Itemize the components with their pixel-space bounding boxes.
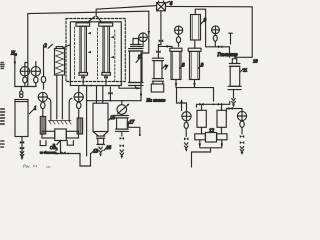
wire riser down from line A bbox=[141, 11, 149, 101]
analysis branch bbox=[119, 87, 141, 89]
R2 foot bbox=[102, 73, 111, 76]
column 8/9 outlet stems bbox=[176, 80, 195, 87]
wire branch y46 to column 8 bbox=[158, 46, 172, 48]
gas holder 11 neck bbox=[232, 59, 236, 64]
rheometer L2 bbox=[31, 67, 40, 76]
saturator dip legs bbox=[57, 75, 63, 119]
svg-text:11: 11 bbox=[243, 67, 247, 72]
flow meter over column 8 bbox=[175, 26, 183, 34]
svg-text:10: 10 bbox=[253, 59, 258, 64]
separator column C1 bbox=[93, 103, 108, 131]
scan mark left edge middle bbox=[1, 109, 5, 124]
furnace inner box bbox=[70, 22, 121, 86]
gas holder body bbox=[230, 66, 240, 86]
label 6 pointer bbox=[166, 1, 170, 3]
pump 12 left flange bbox=[195, 134, 206, 140]
flow meter B1 bbox=[38, 92, 47, 101]
saturator 2 bbox=[55, 49, 65, 76]
reactor column R2 body bbox=[103, 26, 109, 72]
label 9 upper pointer bbox=[201, 20, 205, 24]
rheometer train x43.5 upper wire bbox=[43, 45, 45, 74]
label 1 pointer bbox=[29, 109, 34, 114]
vessel 7 bbox=[152, 58, 163, 60]
label 9 pointer bbox=[198, 65, 201, 69]
header wire y86.5 bbox=[15, 86, 36, 88]
tower 9 top wire bbox=[195, 9, 205, 47]
heater dashed lines bbox=[114, 30, 116, 81]
corner wire bbox=[128, 122, 140, 136]
CO2 valve bbox=[61, 151, 65, 154]
column 8 bbox=[171, 51, 181, 79]
svg-text:CO₂: CO₂ bbox=[50, 145, 58, 150]
svg-text:12: 12 bbox=[209, 129, 215, 134]
valve pair below column 1 bbox=[20, 141, 24, 144]
reactor column R1 body bbox=[80, 26, 86, 72]
drying column 1 bbox=[15, 100, 28, 137]
thermostat dashed box bbox=[66, 19, 125, 82]
R1 foot bbox=[79, 73, 88, 76]
wire y100.7 bbox=[87, 100, 141, 102]
meter chain right of tower bbox=[212, 26, 220, 34]
vessel 7 bottom cup bbox=[153, 81, 163, 84]
flow indicator circle bbox=[117, 105, 127, 115]
svg-text:Газометр: Газометр bbox=[217, 53, 239, 58]
collect wire to manifold bbox=[176, 88, 214, 102]
pump outlet wire bbox=[60, 141, 62, 154]
circulating pump 3 bbox=[55, 129, 67, 141]
wire loop top-left A bbox=[28, 11, 149, 86]
arrowhead into analysis point bbox=[140, 94, 143, 98]
scan mark left edge upper bbox=[1, 63, 5, 69]
R2 arrows bbox=[110, 36, 114, 38]
label 7 pointer bbox=[163, 65, 166, 69]
CO2 supply wire bbox=[55, 153, 81, 155]
pump 12 body bbox=[206, 133, 217, 143]
wire compressor down to valve chain bbox=[158, 11, 161, 58]
bell over pump bbox=[48, 98, 72, 121]
svg-text:H₂: H₂ bbox=[10, 51, 17, 57]
reactor column R2 cap bbox=[99, 23, 113, 26]
oil cup right bbox=[67, 141, 73, 146]
absorber A2 bbox=[217, 110, 226, 127]
drain arrow bottom right bbox=[240, 147, 244, 152]
column 8 cap bbox=[170, 48, 182, 51]
vessel 5 flanges bbox=[129, 45, 144, 52]
flow meter R bbox=[241, 109, 243, 112]
label 3 pointer bbox=[57, 141, 60, 145]
valve on manifold left bbox=[199, 103, 203, 106]
H2 inlet wire bbox=[14, 57, 16, 87]
svg-text:17: 17 bbox=[129, 120, 134, 125]
label 13 pointer bbox=[91, 150, 95, 154]
flow meter B2 chain bbox=[78, 86, 80, 93]
C2 drain bbox=[121, 131, 123, 136]
wire y46.8 manifold bbox=[206, 47, 230, 58]
absorber A1 bbox=[197, 110, 206, 127]
svg-text:Рис. •••: Рис. ••• bbox=[22, 164, 38, 169]
label 11 pointer bbox=[240, 69, 243, 72]
A1 stem bbox=[201, 127, 203, 134]
crossover to riser bbox=[87, 17, 102, 23]
gas holder flange top bbox=[229, 64, 240, 67]
burette left bbox=[40, 117, 45, 135]
purge link wire bbox=[177, 88, 187, 112]
stub tube bbox=[229, 33, 233, 44]
bottom right wire bbox=[227, 109, 243, 112]
gas holder flange bottom bbox=[228, 86, 241, 89]
compressor box 6 bbox=[157, 3, 166, 11]
column 9b cap bbox=[188, 48, 201, 51]
label 8 pointer bbox=[180, 65, 183, 69]
oil cup left bbox=[40, 141, 46, 146]
flow meter left of absorbers bbox=[182, 112, 191, 121]
drain arrow below left meter bbox=[184, 143, 188, 148]
label 2 pointer bbox=[48, 44, 52, 48]
risers to absorbers bbox=[202, 104, 222, 110]
label 5 pointer bbox=[136, 58, 140, 62]
svg-text:из баллона: из баллона bbox=[40, 151, 56, 155]
valve on manifold right bbox=[218, 103, 222, 106]
valve on wire bbox=[228, 107, 232, 110]
svg-text:1: 1 bbox=[34, 107, 37, 112]
up arrow outside bbox=[181, 101, 183, 111]
wire long vertical to flask bbox=[86, 86, 88, 156]
gauge over vessel 5 bbox=[139, 33, 148, 42]
arrow on branch bbox=[167, 45, 171, 48]
valve riser bbox=[109, 87, 111, 101]
saturator outlet diagonal bbox=[63, 45, 70, 48]
twin cock valves over column 1 bbox=[20, 91, 23, 94]
vessel 5 body bbox=[130, 51, 143, 83]
R2 bottom stem bbox=[105, 75, 107, 85]
tower 9 upper bbox=[191, 15, 201, 41]
A2 stem bbox=[221, 127, 223, 134]
vessel 5 outlet bbox=[135, 86, 137, 89]
reactor column R1 cap bbox=[76, 23, 90, 26]
svg-text:•••: ••• bbox=[46, 165, 51, 169]
R1 arrows bbox=[88, 32, 92, 34]
svg-text:13: 13 bbox=[93, 150, 98, 155]
vessel 5 bottom cap bbox=[129, 83, 144, 86]
valve pair bottom right bbox=[240, 135, 244, 138]
valve below left meter bbox=[184, 137, 188, 140]
valve under compressor bbox=[159, 39, 164, 42]
label 16 pointer bbox=[104, 147, 107, 151]
pump 12 right flange bbox=[217, 134, 227, 140]
burette right bbox=[77, 118, 82, 134]
wire from compressor to right edge bbox=[165, 6, 252, 57]
condenser C2 bbox=[116, 116, 129, 118]
C1 drain arrow bbox=[99, 147, 103, 153]
svg-text:16: 16 bbox=[106, 146, 111, 151]
bottom return wire bbox=[192, 148, 211, 167]
valve on manifold bbox=[218, 45, 222, 48]
wire below column 1 bbox=[21, 137, 23, 158]
svg-text:На анализ: На анализ bbox=[146, 98, 166, 103]
manifold wire bbox=[197, 101, 230, 107]
reactor outlet links bbox=[80, 86, 119, 89]
valve above vessel 7 bbox=[156, 50, 160, 53]
label 17 pointer bbox=[128, 121, 131, 125]
gas holder outlet bbox=[233, 90, 235, 98]
label 15 pointer bbox=[108, 116, 112, 120]
flask 13 bbox=[80, 154, 91, 167]
svg-text:15: 15 bbox=[110, 116, 115, 121]
wire header to drier column 1 bbox=[20, 87, 22, 92]
scan mark left edge lower bbox=[1, 141, 5, 147]
C1 bottom flanged tube bbox=[97, 136, 105, 138]
R1 bottom stem bbox=[82, 75, 84, 85]
arrow on riser bbox=[148, 31, 151, 35]
water seal hatch bbox=[49, 121, 72, 125]
wire line B to compressor 6 bbox=[96, 6, 156, 17]
drain arrow below column 1 bbox=[20, 152, 24, 157]
rheometer L1 bbox=[20, 67, 29, 76]
column 9b bbox=[190, 51, 200, 79]
C1 funnel bbox=[93, 132, 108, 136]
vessel 5 neck bbox=[133, 39, 139, 45]
pump 12 outlets bbox=[200, 140, 222, 147]
